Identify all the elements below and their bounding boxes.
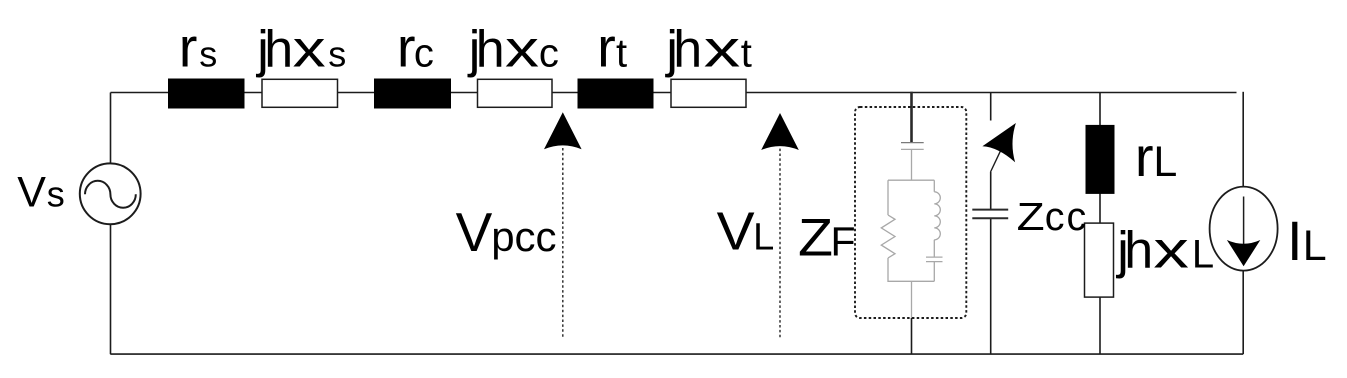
svg-text:h: h <box>264 21 293 79</box>
svg-text:x: x <box>505 21 539 79</box>
svg-text:h: h <box>673 21 702 79</box>
svg-text:h: h <box>1124 222 1153 280</box>
svg-text:c: c <box>539 32 559 76</box>
svg-text:s: s <box>47 174 65 215</box>
svg-text:h: h <box>476 21 505 79</box>
svg-text:L: L <box>1192 233 1214 277</box>
svg-text:c: c <box>1067 195 1087 239</box>
svg-text:V: V <box>456 201 493 263</box>
svg-text:pcc: pcc <box>491 213 556 260</box>
svg-text:V: V <box>17 169 46 217</box>
svg-text:V: V <box>717 202 755 262</box>
svg-text:F: F <box>831 219 856 265</box>
svg-text:r: r <box>1135 125 1154 188</box>
svg-text:L: L <box>1153 138 1177 186</box>
svg-text:s: s <box>199 34 217 75</box>
svg-text:Z: Z <box>798 209 833 268</box>
svg-text:Z: Z <box>1017 196 1045 239</box>
svg-text:x: x <box>293 21 326 79</box>
svg-text:c: c <box>1045 195 1065 239</box>
svg-text:I: I <box>1287 209 1303 272</box>
svg-text:L: L <box>1303 222 1327 270</box>
svg-text:r: r <box>179 16 198 79</box>
svg-text:x: x <box>704 21 741 79</box>
svg-text:r: r <box>597 16 616 79</box>
svg-text:t: t <box>616 32 627 76</box>
svg-text:t: t <box>741 32 752 76</box>
svg-text:L: L <box>753 217 774 259</box>
svg-text:s: s <box>328 34 346 75</box>
svg-text:x: x <box>1153 222 1189 280</box>
svg-text:c: c <box>414 32 434 76</box>
svg-text:r: r <box>397 16 416 79</box>
